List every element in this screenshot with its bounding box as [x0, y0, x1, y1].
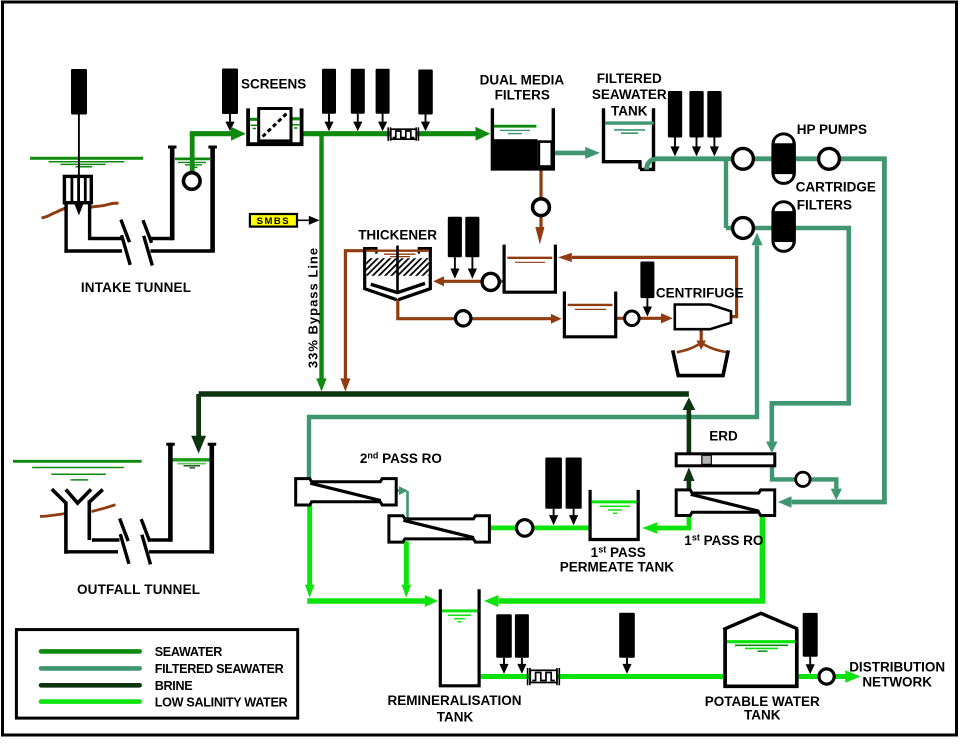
- dosing stem I: [713, 138, 715, 147]
- dual media filter tank: [492, 139, 538, 168]
- svg-text:REMINERALISATION: REMINERALISATION: [388, 693, 522, 708]
- 2nd pass RO stage 1 vessel: [296, 479, 397, 505]
- washwater recovery tank T1: [504, 245, 555, 293]
- dosing arrowhead F: [421, 122, 430, 132]
- wire: centrate return line centrifuge to washwater tank: [572, 257, 737, 316]
- wire: brine from 1st pass RO to ERD: [687, 481, 692, 491]
- svg-text:PERMEATE TANK: PERMEATE TANK: [560, 559, 674, 574]
- polymer dosing bar K (thickener): [465, 217, 479, 258]
- wire: 2nd pass stage1 permeate down: [307, 505, 312, 585]
- intake screen shaft box: [64, 176, 91, 202]
- arrowhead: potable water to distribution network: [845, 670, 860, 682]
- static mixer M1 on seawater line: [388, 127, 418, 140]
- dosing arrowhead I: [710, 146, 719, 156]
- pump P4 HP pump: [819, 148, 840, 169]
- wire: 2nd pass RO stage1 to stage2 interconnection: [406, 491, 409, 518]
- svg-text:SEAWATER: SEAWATER: [592, 87, 667, 102]
- wire: seawater surface at intake: [30, 158, 143, 167]
- dosing stem H: [696, 138, 698, 147]
- dosing arrowhead O2: [517, 664, 526, 674]
- wire: thickener feed line from washwater tank: [444, 280, 504, 283]
- svg-text:DISTRIBUTION: DISTRIBUTION: [849, 660, 945, 675]
- legend box: [16, 630, 297, 719]
- centrifuge body: [675, 305, 731, 330]
- cartridge filter CF1: [773, 134, 795, 184]
- wire: centrifuge solids discharge: [700, 328, 703, 341]
- chemical dosing bar O2 (remineralisation): [515, 614, 529, 658]
- wire: brown seaweed mark at intake: [42, 208, 67, 218]
- svg-text:FILTERED: FILTERED: [597, 71, 662, 86]
- dosing stem Q: [809, 657, 811, 665]
- pump P11 distribution pump: [819, 669, 834, 684]
- wire: seawater main line screens to dual media filters: [303, 131, 476, 136]
- arrowhead: solids into skip: [696, 341, 706, 351]
- chemical dosing bar N (2nd pass feed): [566, 458, 582, 509]
- pump P1 intake well pump: [184, 173, 201, 190]
- chemical dosing bar I: [707, 91, 721, 138]
- dosing stem N: [573, 509, 575, 516]
- arrowhead: filtered seawater into FST: [585, 147, 600, 159]
- svg-text:CARTRIDGE: CARTRIDGE: [796, 180, 876, 195]
- chemical dosing bar B (before screens): [222, 69, 238, 115]
- svg-text:DUAL MEDIA: DUAL MEDIA: [480, 72, 565, 87]
- chemical dosing bar D: [351, 69, 365, 114]
- chemical dosing bar M (2nd pass feed): [545, 458, 562, 509]
- pump P7 thickener feed pump: [482, 273, 499, 290]
- dosing stem M: [553, 509, 555, 516]
- arrowhead: seawater into dual media filters: [476, 127, 491, 141]
- chemical dosing bar G: [668, 91, 682, 138]
- pump P9 ERD booster pump: [796, 472, 810, 486]
- dosing stem O2: [521, 658, 523, 664]
- legend brine line: [41, 683, 140, 688]
- wire: second filtered seawater line to ERD feed: [726, 228, 849, 442]
- wire: filtered seawater main line from FST through pumps and cartridge filter to HP pumps, down right side to 1st pass RO: [654, 159, 885, 502]
- dosing stem L: [646, 298, 648, 307]
- arrowhead: 2nd pass stage2 permeate join: [402, 585, 412, 598]
- dosing arrowhead P: [622, 664, 631, 674]
- dosing arrowhead E: [378, 122, 387, 132]
- wire: 2nd pass stage2 permeate down: [404, 541, 409, 585]
- pump P3 filtered seawater transfer pump: [733, 148, 754, 169]
- dosing arrowhead Q: [806, 664, 815, 674]
- legend low salinity water line: [41, 699, 140, 704]
- wire: seawater pipe from intake pump to screens: [190, 134, 195, 176]
- wire: sludge tank to centrifuge feed line: [616, 317, 662, 320]
- svg-text:THICKENER: THICKENER: [358, 228, 437, 243]
- solids skip container: [673, 350, 729, 375]
- dosing arrowhead O1: [499, 664, 508, 674]
- wire: 33% bypass line (vertical): [319, 134, 323, 379]
- wire: thickener underflow line to sludge tank: [398, 299, 552, 319]
- svg-text:TANK: TANK: [611, 104, 648, 119]
- wire: thickener overflow line to brine line: [345, 251, 364, 379]
- wire: potable water outlet to distribution: [799, 674, 846, 679]
- outfall Y diffuser: [52, 489, 66, 554]
- thickener liquor level (brown): [366, 249, 429, 251]
- dosing stem A: [78, 115, 80, 203]
- dosing stem C: [328, 114, 330, 122]
- outfall tunnel walls: [92, 538, 170, 541]
- cartridge filter CF2: [773, 202, 795, 252]
- pump P5 ERD feed pump: [733, 218, 754, 239]
- wire: 1st pass permeate down and into remineralisation tank (right): [499, 515, 763, 602]
- wire: 2nd pass concentrate recycle line: [309, 245, 757, 480]
- arrowhead: brown overflow into brine line: [340, 378, 350, 391]
- dosing arrowhead B: [225, 122, 234, 132]
- chemical dosing bar P (potable line): [619, 613, 635, 658]
- svg-text:BRINE: BRINE: [155, 679, 193, 693]
- svg-text:SEAWATER: SEAWATER: [155, 645, 223, 659]
- dosing arrowhead J: [450, 269, 459, 279]
- dosing stem E: [382, 114, 384, 122]
- 1st pass permeate tank: [590, 490, 638, 540]
- arrowhead: brine into outfall riser: [191, 436, 206, 454]
- pump P8 centrifuge feed pump: [625, 311, 640, 326]
- arrowhead: into remineralisation tank right: [484, 595, 498, 607]
- dosing arrowhead M: [549, 515, 558, 525]
- dosing arrowhead D: [353, 122, 362, 132]
- arrowhead: permeate into permeate tank: [642, 522, 657, 533]
- arrowhead: centrate into washwater tank: [558, 253, 572, 262]
- arrowhead: stage1 concentrate out: [399, 486, 408, 495]
- wire: water level in outfall riser: [173, 458, 211, 461]
- arrowhead: bypass into brine line: [316, 378, 326, 391]
- wire: solids splash into skip: [677, 345, 699, 353]
- SMBS dosing label box: [250, 214, 297, 227]
- svg-text:OUTFALL TUNNEL: OUTFALL TUNNEL: [77, 582, 200, 597]
- chemical dosing bar F: [418, 70, 433, 115]
- filtered seawater tank water level: [647, 159, 656, 170]
- intake screen bars: [72, 178, 85, 202]
- wire: DMF backwash line down to washwater tank: [539, 168, 542, 228]
- dosing arrowhead L: [643, 307, 652, 317]
- filtered seawater tank: [602, 108, 655, 171]
- wire: 1st pass RO permeate into permeate tank: [657, 514, 689, 528]
- arrowhead: sludge into centrifuge: [661, 313, 673, 323]
- remineralisation tank: [440, 589, 479, 686]
- dosing arrowhead G: [670, 146, 679, 156]
- svg-text:TANK: TANK: [744, 708, 781, 723]
- dosing arrowhead N: [569, 515, 578, 525]
- polymer dosing bar L (centrifuge): [640, 262, 654, 299]
- wire: brine drop into outfall riser: [196, 394, 201, 436]
- arrowhead: feed into 1st pass RO: [778, 496, 792, 508]
- arrowhead: underflow into sludge tank: [551, 314, 562, 324]
- svg-text:33% Bypass Line: 33% Bypass Line: [306, 247, 321, 368]
- svg-text:ERD: ERD: [709, 429, 738, 444]
- pump P10 2nd pass feed pump: [517, 520, 533, 536]
- svg-text:TANK: TANK: [437, 710, 474, 725]
- SMBS arrowhead: [309, 216, 320, 225]
- wire: low salinity header into remineralisation tank (left): [307, 598, 425, 604]
- wire: teal branch junction vertical to second pump line: [724, 157, 728, 228]
- dosing stem G: [674, 138, 676, 147]
- pump P6 thickener underflow pump: [456, 311, 471, 326]
- arrowhead: 2nd pass stage1 permeate join: [305, 585, 315, 598]
- wire: remineralised water line to potable tank: [481, 674, 724, 679]
- svg-text:NETWORK: NETWORK: [862, 675, 932, 690]
- chemical dosing bar H: [689, 91, 703, 138]
- svg-text:LOW SALINITY WATER: LOW SALINITY WATER: [155, 695, 288, 709]
- wire: brown seaweed mark at outfall: [40, 514, 65, 517]
- svg-text:HP PUMPS: HP PUMPS: [797, 122, 867, 137]
- dual media filter water level: [494, 125, 536, 128]
- dosing arrowhead H: [692, 146, 701, 156]
- svg-text:SMBS: SMBS: [257, 216, 290, 227]
- arrowhead: into remineralisation tank left: [425, 595, 438, 607]
- svg-text:SCREENS: SCREENS: [241, 76, 306, 91]
- potable water tank: [725, 629, 797, 686]
- 1st pass RO vessel: [676, 490, 775, 516]
- arrowhead: backwash into washwater tank: [535, 227, 544, 244]
- intake pump well walls: [170, 146, 175, 240]
- outfall tunnel break marks: [120, 519, 129, 564]
- screens tank: [246, 108, 303, 144]
- band screen box with diagonal: [259, 109, 291, 141]
- chemical dosing bar Q (potable tank outlet): [803, 613, 818, 657]
- svg-text:CENTRIFUGE: CENTRIFUGE: [656, 285, 744, 300]
- chemical dosing bar O1 (remineralisation): [496, 614, 512, 658]
- static mixer M2 on remineralised water line: [528, 668, 560, 685]
- dosing arrowhead A: [74, 202, 84, 216]
- dosing stem O1: [503, 658, 505, 664]
- pump P2 on DMF backwash: [533, 199, 550, 216]
- outfall riser shaft: [168, 443, 173, 542]
- svg-text:FILTERS: FILTERS: [495, 88, 550, 103]
- wire: brine main line to outfall: [199, 391, 689, 396]
- polymer dosing bar J (thickener): [448, 217, 462, 258]
- dosing stem P: [626, 658, 628, 664]
- wire: water level in intake pump well: [175, 159, 210, 167]
- arrowhead: 2nd pass recycle up into line: [751, 233, 762, 245]
- intake tunnel break marks: [121, 220, 130, 265]
- chemical dosing bar C: [322, 69, 336, 114]
- wire: filtered seawater line DMF to FST: [555, 151, 586, 156]
- chemical dosing bar A (intake): [71, 69, 87, 115]
- arrowhead: brine joining outfall line: [683, 397, 696, 410]
- legend seawater line: [41, 649, 140, 654]
- wire: brine from ERD up to outfall line: [687, 410, 692, 454]
- dosing stem D: [357, 114, 359, 122]
- ERD energy recovery device: [676, 454, 775, 466]
- dosing stem K: [471, 257, 473, 268]
- sludge holding tank T2: [564, 292, 615, 337]
- wire: ERD boost outlet line to RO feed: [772, 465, 836, 489]
- svg-text:INTAKE TUNNEL: INTAKE TUNNEL: [81, 280, 191, 295]
- arrowhead: brine into ERD: [683, 467, 694, 481]
- thickener sludge hatch: [366, 258, 428, 276]
- legend filtered seawater line: [41, 666, 140, 671]
- intake tunnel walls: [64, 202, 67, 253]
- arrowhead: teal into ERD top: [766, 442, 778, 454]
- dosing stem J: [454, 257, 456, 268]
- thickener internal rake: [371, 283, 425, 292]
- dosing arrowhead K: [468, 269, 477, 279]
- chemical dosing bar E: [376, 69, 390, 114]
- dosing stem F: [425, 115, 427, 122]
- dosing arrowhead C: [324, 122, 333, 132]
- svg-text:FILTERED SEAWATER: FILTERED SEAWATER: [155, 662, 284, 676]
- 2nd pass RO stage 2 vessel: [389, 516, 490, 542]
- svg-text:FILTERS: FILTERS: [797, 198, 852, 213]
- wire: seawater surface at outfall: [13, 461, 142, 480]
- arrowhead: seawater into screens: [231, 127, 246, 141]
- dosing stem B: [229, 114, 231, 122]
- screens water levels: [250, 117, 300, 121]
- wire: 2nd pass feed line from permeate tank through pump: [489, 526, 589, 531]
- arrowhead: feed into thickener: [433, 276, 444, 286]
- thickener tank body with cone: [365, 247, 397, 299]
- arrowhead: ERD boost joining RO feed: [831, 489, 842, 500]
